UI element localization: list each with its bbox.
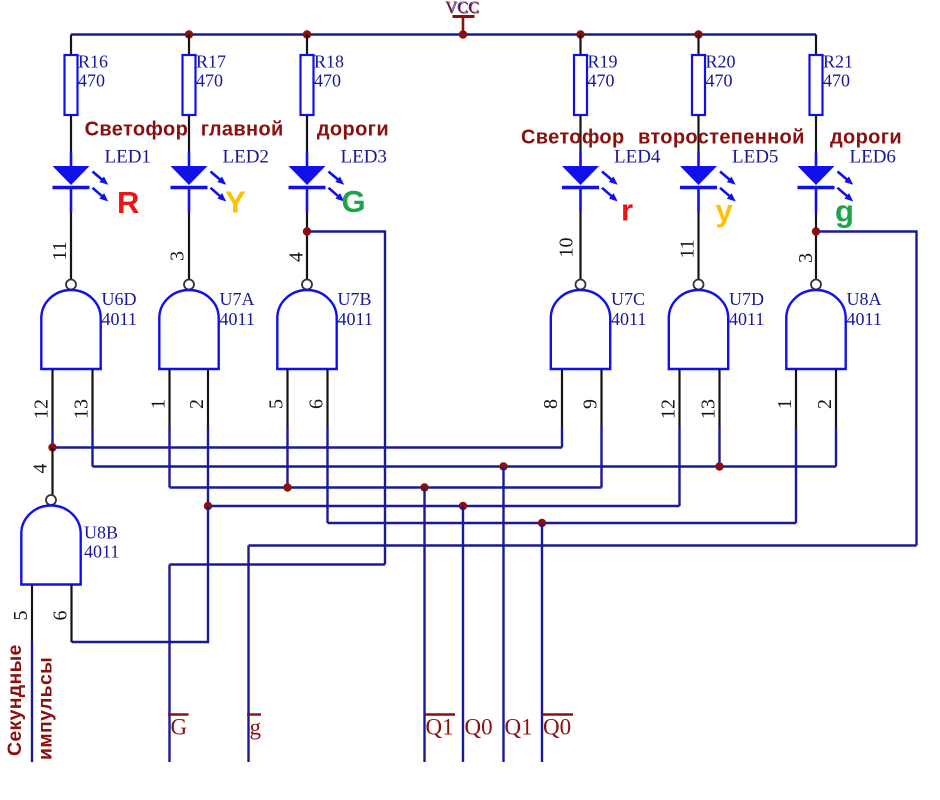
junction net Q1-bar drop (420, 483, 428, 491)
wire net segment U6D.12→net (51, 427, 53, 448)
resistor R18 (301, 52, 345, 116)
wire net g-bar drop (247, 546, 249, 763)
svg-text:дороги: дороги (830, 127, 902, 149)
svg-text:Q1: Q1 (426, 715, 454, 740)
wire R19 to LED4 (579, 115, 581, 152)
wire U7C pin 9 stub (600, 369, 602, 428)
svg-text:R19: R19 (588, 52, 618, 72)
svg-text:11: 11 (49, 241, 71, 260)
svg-text:LED4: LED4 (614, 147, 661, 168)
junction VCC on rail (459, 30, 467, 38)
svg-text:LED3: LED3 (341, 147, 387, 168)
NAND gate U7A (4011) (159, 280, 255, 370)
wire LED3 to gate U7B pin 4 (306, 213, 308, 280)
wire net U7B.6 to U8A.1 (Q0-bar) (328, 522, 797, 524)
svg-text:11: 11 (677, 239, 699, 258)
svg-text:Q1: Q1 (505, 715, 533, 740)
wire U8B pin6 stub (70, 585, 72, 643)
wire LED4 to gate U7C pin 10 (579, 213, 581, 280)
wire U8A pin 2 stub (835, 369, 837, 428)
wire LED2 to gate U7A pin 3 (188, 213, 190, 280)
resistor R17 (183, 52, 227, 116)
svg-text:4011: 4011 (102, 309, 137, 329)
wire rail to R21 (815, 35, 817, 56)
svg-text:U8A: U8A (847, 289, 882, 309)
wire U6D pin 13 stub (91, 369, 93, 428)
wire net segment U7B.6→net (326, 427, 328, 524)
wire net segment U7B.5→net (286, 427, 288, 488)
svg-text:3: 3 (167, 251, 189, 261)
net label Q1 (505, 715, 533, 740)
wire U8B pin6 to net Q0 (72, 506, 209, 642)
svg-text:G: G (171, 715, 188, 740)
svg-text:12: 12 (658, 399, 680, 419)
svg-text:g: g (835, 194, 854, 229)
svg-text:LED6: LED6 (850, 147, 896, 168)
wire LED1 to gate U6D pin 11 (70, 213, 72, 280)
wire net U7A.1 to U7B.5 to U7C.9 (Q1-bar) (170, 486, 602, 488)
wire net segment U7C.9→net (600, 427, 602, 488)
wire U8B pin5 stub (31, 585, 33, 643)
resistor R19 (574, 52, 618, 116)
wire U8B pin4 stub to bubble (51, 448, 53, 496)
resistor R16 (65, 52, 109, 116)
svg-text:R20: R20 (706, 52, 736, 72)
svg-text:Q0: Q0 (465, 715, 493, 740)
svg-text:5: 5 (10, 611, 32, 621)
net label G-bar (168, 715, 189, 740)
net label Q0 (465, 715, 493, 740)
wire net U7A.2 to U7D.12 (Q0) (208, 505, 680, 507)
svg-text:LED2: LED2 (223, 147, 269, 168)
svg-text:Светофор: Светофор (521, 127, 625, 149)
wire net Q0 drop (462, 506, 464, 762)
wire net segment U6D.13→net (91, 427, 93, 467)
LED LED3 (289, 152, 345, 213)
svg-text:1: 1 (774, 399, 796, 409)
wire rail to R20 (697, 35, 699, 56)
svg-text:Светофор: Светофор (85, 119, 189, 141)
svg-text:4011: 4011 (847, 309, 882, 329)
LED LED6 (798, 152, 854, 213)
wire R18 to LED3 (306, 115, 308, 152)
wire net g-bar horizontal (249, 544, 917, 546)
wire R17 to LED2 (188, 115, 190, 152)
svg-text:LED5: LED5 (732, 147, 778, 168)
NAND gate U7D (4011) (669, 280, 765, 370)
svg-text:470: 470 (706, 71, 733, 91)
svg-text:r: r (621, 193, 633, 228)
wire net segment U7A.2→net (207, 427, 209, 507)
svg-text:R21: R21 (823, 52, 853, 72)
resistor R21 (810, 52, 854, 116)
wire R20 to LED5 (697, 115, 699, 152)
junction U7D pin13 (715, 462, 723, 470)
svg-text:U7D: U7D (729, 289, 764, 309)
svg-text:470: 470 (314, 71, 341, 91)
LED LED5 (680, 152, 736, 213)
wire VCC power rail (71, 33, 816, 36)
svg-text:4011: 4011 (338, 309, 373, 329)
wire LED5 to gate U7D pin 11 (697, 213, 699, 280)
LED LED1 (53, 152, 109, 213)
NAND gate U6D (4011) (41, 280, 137, 370)
NAND gate U7B (4011) (277, 280, 373, 370)
wire net Q1 drop (502, 467, 504, 763)
LED LED2 (171, 152, 227, 213)
wire rail to R16 (70, 35, 72, 56)
svg-text:4011: 4011 (84, 542, 119, 562)
svg-text:R: R (117, 185, 139, 220)
wire net segment U7D.12→net (678, 427, 680, 507)
net label Q0-bar (542, 715, 573, 740)
junction U7A pin2 / U8B pin6 (204, 502, 212, 510)
wire U6D pin 12 stub (51, 369, 53, 428)
svg-text:8: 8 (540, 399, 562, 409)
svg-text:470: 470 (78, 71, 105, 91)
net label Q1-bar (425, 715, 456, 740)
wire U7B pin 5 stub (286, 369, 288, 428)
NAND gate U8B (4011) (21, 495, 119, 585)
svg-text:470: 470 (588, 71, 615, 91)
junction net Q0-bar drop (538, 519, 546, 527)
svg-text:3: 3 (795, 253, 817, 263)
svg-text:U6D: U6D (102, 289, 137, 309)
svg-text:2: 2 (814, 399, 836, 409)
wire net U6D.13 to U7D.13 to U8A.2 (Q1) (93, 465, 837, 467)
wire rail to R17 (188, 35, 190, 56)
wire rail to R18 (306, 35, 308, 56)
svg-text:y: y (716, 193, 734, 228)
svg-text:R17: R17 (196, 52, 226, 72)
svg-text:U8B: U8B (84, 523, 118, 543)
wire net G-bar horizontal (170, 563, 386, 565)
NAND gate U8A (4011) (786, 280, 882, 370)
svg-text:2: 2 (186, 399, 208, 409)
svg-text:LED1: LED1 (105, 147, 151, 168)
wire R21 to LED6 (815, 115, 817, 152)
svg-text:Q0: Q0 (543, 715, 571, 740)
svg-text:5: 5 (266, 399, 288, 409)
power symbol VCC (446, 0, 480, 35)
wire net segment U7D.13→net (718, 427, 720, 467)
junction rail to R20 (694, 30, 702, 38)
svg-text:g: g (250, 715, 262, 740)
junction U6D pin12 / U8B pin4 (48, 443, 56, 451)
resistor R20 (692, 52, 736, 116)
junction net Q0 drop (459, 502, 467, 510)
wire U7D pin 12 stub (678, 369, 680, 428)
svg-text:R18: R18 (314, 52, 344, 72)
junction net Q1 drop (499, 462, 507, 470)
svg-text:4011: 4011 (220, 309, 255, 329)
svg-text:6: 6 (306, 399, 328, 409)
svg-text:U7C: U7C (611, 289, 645, 309)
svg-text:Секундные: Секундные (4, 644, 26, 756)
svg-text:U7A: U7A (220, 289, 255, 309)
svg-text:13: 13 (71, 399, 93, 419)
wire LED6 to gate U8A pin 3 (815, 213, 817, 280)
wire net G-bar drop (168, 565, 170, 763)
wire net segment U7A.1→net (168, 427, 170, 488)
svg-text:VCC: VCC (446, 0, 480, 18)
svg-text:470: 470 (196, 71, 223, 91)
wire rail to R19 (579, 35, 581, 56)
junction rail to R19 (576, 30, 584, 38)
svg-text:R16: R16 (78, 52, 108, 72)
svg-text:главной: главной (201, 119, 284, 141)
wire U7A pin 1 stub (168, 369, 170, 428)
svg-text:9: 9 (580, 399, 602, 409)
wire LED3 node to net G-bar (right then down) (307, 232, 385, 565)
wire U8A pin 1 stub (795, 369, 797, 428)
svg-text:G: G (342, 184, 366, 219)
wire U7B pin 6 stub (326, 369, 328, 428)
wire U7D pin 13 stub (718, 369, 720, 428)
svg-text:дороги: дороги (317, 119, 389, 141)
svg-text:470: 470 (823, 71, 850, 91)
svg-text:12: 12 (31, 399, 53, 419)
wire net segment U8A.2→net (835, 427, 837, 467)
junction U7B pin5 (283, 483, 291, 491)
svg-text:4: 4 (30, 464, 52, 474)
svg-text:4011: 4011 (611, 309, 646, 329)
svg-text:второстепенной: второстепенной (638, 127, 805, 149)
wire U7C pin 8 stub (561, 369, 563, 428)
wire net Q1-bar drop (423, 488, 425, 763)
wire U7A pin 2 stub (207, 369, 209, 428)
wire seconds-pulse input line (31, 642, 33, 762)
svg-text:6: 6 (50, 611, 72, 621)
svg-text:4: 4 (286, 252, 308, 262)
wire net segment U8A.1→net (795, 427, 797, 524)
svg-text:импульсы: импульсы (35, 657, 57, 760)
svg-text:Y: Y (225, 185, 246, 220)
svg-text:13: 13 (698, 399, 720, 419)
net label g-bar (247, 715, 262, 740)
svg-text:1: 1 (148, 399, 170, 409)
NAND gate U7C (4011) (551, 280, 647, 370)
wire LED6 node to net g-bar (right then down) (816, 232, 917, 546)
wire net segment U7C.8→net (561, 427, 563, 448)
junction rail to R17 (185, 30, 193, 38)
svg-text:10: 10 (556, 238, 578, 258)
junction LED3 anode node (303, 227, 311, 235)
wire R16 to LED1 (70, 115, 72, 152)
svg-text:U7B: U7B (338, 289, 372, 309)
LED LED4 (562, 152, 618, 213)
wire net U8B.4/U6D.12 to U7C.8 (53, 446, 563, 448)
wire net Q0-bar drop (541, 523, 543, 762)
junction rail to R18 (303, 30, 311, 38)
svg-text:4011: 4011 (729, 309, 764, 329)
junction LED6 anode node (812, 227, 820, 235)
